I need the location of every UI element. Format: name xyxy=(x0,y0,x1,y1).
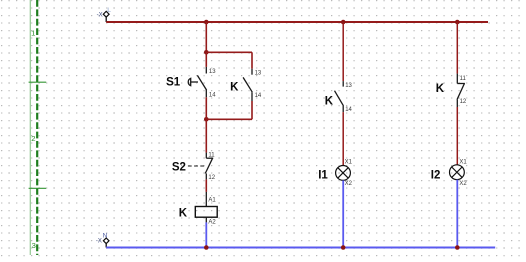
wire I2 to N (blue) xyxy=(456,180,458,248)
coil K (A1-A2) xyxy=(195,207,217,218)
wire parallel loop bottom xyxy=(206,118,252,120)
contact K (NO 13-14, parallel) xyxy=(243,69,252,101)
wire N bottom line xyxy=(106,247,495,249)
wire coil to N (blue) xyxy=(205,222,207,247)
svg-text:12: 12 xyxy=(460,99,467,105)
frame column light line xyxy=(29,0,31,255)
svg-text:13: 13 xyxy=(255,71,262,77)
junction branch2 / N xyxy=(341,245,346,250)
wire branch1 from L to parallel split xyxy=(205,22,207,52)
svg-text:X1: X1 xyxy=(459,159,467,165)
wire coil bottom lead (black) xyxy=(205,217,207,222)
junction parallel top xyxy=(204,50,209,55)
junction at branch2 / L xyxy=(341,20,346,25)
svg-text:S1: S1 xyxy=(166,77,181,89)
junction at branch1 / L xyxy=(204,20,209,25)
svg-text:K: K xyxy=(230,82,239,94)
svg-text:14: 14 xyxy=(345,107,352,113)
frame row divider 2 xyxy=(29,187,47,189)
wire S1 top lead xyxy=(205,52,207,67)
svg-text:11: 11 xyxy=(208,153,215,159)
svg-text:13: 13 xyxy=(209,69,216,75)
svg-text:-X: -X xyxy=(97,12,103,18)
wire coil top lead (black) xyxy=(205,192,207,207)
svg-text:A2: A2 xyxy=(208,220,216,226)
terminal -X bottom (N) xyxy=(96,232,109,247)
svg-text:X2: X2 xyxy=(345,181,353,187)
pushbutton S2 (NC contact 11-12) xyxy=(188,153,213,180)
wire L top line xyxy=(106,21,488,23)
svg-text:I2: I2 xyxy=(431,169,441,181)
wire branch2 from L xyxy=(342,22,344,81)
svg-text:S2: S2 xyxy=(172,162,186,174)
wire parallel loop top xyxy=(206,51,252,53)
contact K (NC 11-12, branch3) xyxy=(457,74,465,107)
frame column dashed line xyxy=(36,0,38,255)
svg-text:K: K xyxy=(179,207,188,219)
svg-text:X1: X1 xyxy=(345,159,353,165)
svg-text:N: N xyxy=(103,232,108,239)
svg-text:-X: -X xyxy=(96,239,102,245)
svg-text:11: 11 xyxy=(460,76,467,82)
svg-text:3: 3 xyxy=(32,241,36,250)
lamp I1 (X1-X2) xyxy=(336,166,351,181)
svg-text:1: 1 xyxy=(31,29,35,38)
pushbutton S1 (NO contact 13-14) xyxy=(188,67,206,97)
lamp I2 (X1-X2) xyxy=(450,165,465,180)
junction at branch3 / L xyxy=(455,20,460,25)
wire branch2 mid xyxy=(342,112,344,165)
wire loop right upper xyxy=(251,52,253,68)
wire I1 to N (blue) xyxy=(342,180,344,247)
junction branch3 / N xyxy=(455,245,460,250)
svg-text:2: 2 xyxy=(31,134,35,143)
wire branch3 from L xyxy=(456,22,458,74)
svg-text:13: 13 xyxy=(345,83,352,89)
wire loop right lower xyxy=(251,101,253,119)
svg-text:14: 14 xyxy=(255,93,262,99)
svg-text:K: K xyxy=(436,83,445,95)
junction parallel bottom xyxy=(204,117,209,122)
junction branch1 / N xyxy=(204,245,209,250)
svg-text:K: K xyxy=(325,96,334,108)
svg-text:I1: I1 xyxy=(318,169,328,181)
wire branch3 mid xyxy=(456,107,458,165)
svg-text:L: L xyxy=(107,7,111,14)
wire branch1 mid xyxy=(205,119,207,152)
wire S1 bottom lead xyxy=(205,97,207,119)
svg-text:X2: X2 xyxy=(459,181,467,187)
contact K (NO 13-14, branch2) xyxy=(335,81,344,112)
svg-text:A1: A1 xyxy=(208,198,216,204)
svg-text:12: 12 xyxy=(208,175,215,181)
frame row divider 1 xyxy=(29,81,47,83)
terminal -X top (L) xyxy=(97,7,112,22)
wire S2 to coil (red part) xyxy=(205,179,207,192)
svg-text:14: 14 xyxy=(209,92,216,98)
